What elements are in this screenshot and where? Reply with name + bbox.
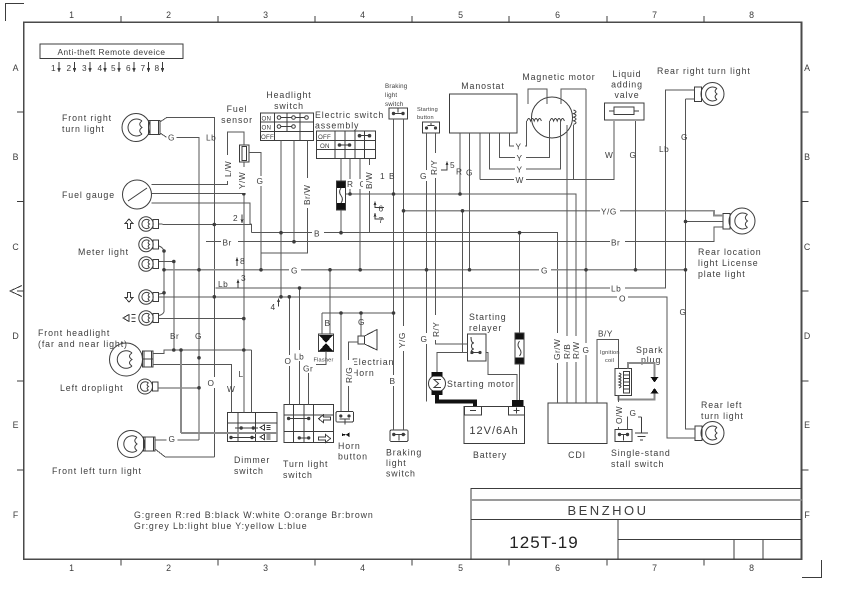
svg-text:switch: switch [385, 101, 404, 108]
svg-text:F: F [804, 510, 810, 520]
meter lamp 3 [139, 257, 159, 271]
wire manostat pin Y1 [490, 121, 561, 169]
svg-text:5: 5 [111, 63, 116, 73]
wire horn G [360, 313, 362, 336]
svg-text:button: button [338, 452, 368, 462]
svg-text:B/W: B/W [364, 172, 374, 189]
svg-text:C: C [804, 242, 811, 252]
wire R/B motor to CDI [566, 125, 568, 403]
svg-text:button: button [417, 115, 434, 121]
wire fuse battery top [519, 233, 521, 333]
svg-text:Horn: Horn [338, 441, 361, 451]
svg-text:1: 1 [51, 63, 56, 73]
CDI [548, 403, 607, 460]
wire Lb front right turn light top lead [160, 118, 214, 457]
bottom ticks [121, 560, 704, 566]
corner mark top-left [6, 4, 25, 22]
svg-text:8: 8 [749, 563, 755, 573]
svg-text:3: 3 [263, 10, 269, 20]
svg-text:Y: Y [516, 142, 522, 152]
svg-text:plate light: plate light [698, 269, 746, 279]
svg-text:O: O [285, 356, 292, 366]
single-stand stall switch [611, 430, 671, 470]
svg-text:1: 1 [69, 10, 75, 20]
node Lb bus right [610, 283, 625, 294]
svg-text:1: 1 [69, 563, 75, 573]
turn light switch [283, 405, 334, 481]
wire braking light switch front left pin [393, 119, 395, 430]
node Y1 [514, 141, 525, 152]
svg-text:G: G [169, 434, 176, 444]
electrian horn [352, 330, 394, 379]
svg-text:G: G [630, 408, 637, 418]
svg-text:R: R [456, 167, 463, 177]
wire electric switch pin B/W [369, 159, 371, 233]
electric switch assembly [315, 110, 384, 159]
wire fuel gauge Y/W [152, 162, 244, 413]
starting motor [429, 372, 515, 395]
svg-text:stall switch: stall switch [611, 459, 664, 469]
svg-text:Rear right turn light: Rear right turn light [657, 66, 751, 76]
svg-text:Front right: Front right [62, 113, 112, 123]
svg-text:G: G [541, 266, 548, 276]
wire dimmer L riser [251, 350, 253, 413]
wire CDI B/Y to ignition coil [597, 340, 619, 403]
svg-text:2: 2 [67, 63, 72, 73]
corner mark bottom-right [802, 560, 822, 578]
wire fuel gauge third lead [152, 203, 252, 225]
svg-text:light License: light License [698, 258, 759, 268]
pin arrow 8 [236, 256, 246, 266]
wire flasher top right [329, 270, 331, 334]
wire Lb bus [216, 90, 695, 288]
svg-text:switch: switch [234, 466, 264, 476]
svg-text:Horn: Horn [352, 368, 375, 378]
wire dimmer gray feed [181, 350, 277, 433]
pin arrow 7 [374, 213, 384, 226]
svg-text:R/G: R/G [344, 367, 354, 383]
node Y/G vertical [396, 326, 407, 351]
svg-text:8: 8 [155, 63, 160, 73]
svg-text:Gr/W: Gr/W [552, 339, 562, 360]
svg-text:W: W [227, 384, 235, 394]
svg-text:OFF: OFF [261, 134, 274, 141]
fuse electric switch [340, 159, 342, 182]
node G bus right [539, 264, 551, 276]
svg-text:ON: ON [262, 125, 272, 132]
wire headlight top lead / L line [153, 350, 252, 354]
svg-text:Lb: Lb [218, 279, 228, 289]
svg-text:Y/G: Y/G [397, 332, 407, 348]
node G elecsw [358, 179, 368, 189]
wire color legend [134, 510, 374, 531]
wire turn switch Lb riser [298, 288, 300, 405]
pin arrow 4 [271, 298, 280, 312]
dimmer switch [228, 413, 278, 477]
spark plug [636, 345, 663, 394]
svg-text:L: L [239, 369, 244, 379]
svg-text:6: 6 [555, 563, 561, 573]
svg-text:L/W: L/W [223, 161, 233, 177]
lamp: front right turn light [62, 113, 160, 142]
wire meter lamp4 upper lead [159, 293, 164, 294]
svg-text:turn light: turn light [701, 411, 744, 421]
wire meter lamp5 lead [159, 318, 244, 320]
wire headlight switch pin2 [293, 141, 295, 242]
svg-text:D: D [12, 331, 19, 341]
wire fuel sensor G [249, 153, 261, 270]
svg-text:Battery: Battery [473, 450, 507, 460]
svg-text:Br: Br [170, 331, 179, 341]
node Br bus left [221, 237, 238, 248]
svg-text:Braking: Braking [386, 448, 422, 458]
svg-text:Lb: Lb [659, 144, 669, 154]
svg-text:Electrian: Electrian [352, 357, 394, 367]
svg-text:D: D [804, 331, 811, 341]
svg-text:switch: switch [274, 101, 304, 111]
wire horn button B [340, 313, 342, 411]
svg-text:turn light: turn light [62, 124, 105, 134]
wire manostat pin G [469, 133, 471, 270]
svg-text:Gr:grey Lb:light blue Y:yell: Gr:grey Lb:light blue Y:yellow L:blue [134, 521, 307, 531]
svg-text:OFF: OFF [318, 134, 331, 141]
node G front right [167, 131, 177, 143]
fuel gauge [62, 180, 152, 209]
pin arrow 5 [441, 160, 455, 170]
svg-text:G: G [630, 150, 637, 160]
svg-text:G: G [421, 334, 428, 344]
right ticks [802, 112, 809, 470]
pin arrow 6 [374, 201, 384, 214]
svg-text:adding: adding [611, 80, 643, 90]
svg-text:Starting motor: Starting motor [447, 379, 515, 389]
svg-text:B/Y: B/Y [598, 329, 613, 339]
indicator arrow up [125, 219, 133, 229]
svg-text:6: 6 [379, 204, 384, 214]
wire manostat pin Y2 [500, 121, 550, 158]
liquid adding valve [605, 69, 645, 120]
svg-text:2: 2 [233, 213, 238, 223]
top numbers [69, 10, 755, 20]
wire headlight switch pin3 Br/W [261, 141, 308, 254]
svg-text:ON: ON [262, 116, 272, 123]
wire droplight lead [158, 387, 199, 389]
svg-text:O: O [619, 294, 626, 304]
headlight switch [261, 90, 314, 141]
svg-text:sensor: sensor [221, 115, 253, 125]
wire G bus [164, 269, 686, 271]
svg-text:R: R [347, 179, 354, 189]
svg-text:Spark: Spark [636, 345, 663, 355]
svg-text:G: G [291, 266, 298, 276]
svg-text:G: G [680, 307, 687, 317]
svg-text:3: 3 [82, 63, 87, 73]
wire Br bus [206, 227, 723, 242]
node Y/G bus [600, 205, 620, 217]
manostat [450, 81, 518, 133]
wire starting button G [426, 133, 428, 402]
svg-text:G:green R:red B:black W:whi: G:green R:red B:black W:white O:orange B… [134, 510, 374, 520]
starting relayer [468, 312, 507, 361]
svg-text:7: 7 [652, 10, 658, 20]
TITLE-BLOCK [471, 489, 802, 560]
node B horn button [388, 375, 398, 386]
svg-text:W: W [605, 150, 613, 160]
node Gr turnswitch [302, 362, 316, 374]
wire braking light switch front right pin [403, 119, 405, 211]
ground symbol [635, 417, 648, 440]
svg-text:R/W: R/W [571, 341, 581, 359]
node B bus label [312, 227, 324, 239]
svg-text:W: W [516, 175, 524, 185]
braking light switch (rear) [386, 430, 422, 479]
wire manostat pin Y3 [510, 121, 527, 146]
svg-text:Starting: Starting [417, 107, 438, 113]
right letters [804, 63, 811, 520]
flasher [312, 334, 342, 364]
svg-text:G: G [420, 171, 427, 181]
svg-text:CDI: CDI [568, 450, 586, 460]
svg-text:Fuel gauge: Fuel gauge [62, 190, 115, 200]
svg-text:Y: Y [517, 165, 523, 175]
node Y3 [515, 164, 526, 175]
thick cable motor to battery minus [437, 393, 475, 406]
lamp: rear right turn light [657, 66, 751, 106]
wire motor bridge 1 [528, 89, 547, 104]
pin arrow 3 [237, 273, 247, 288]
wire manostat pin W [480, 121, 614, 179]
braking light switch (front) [385, 83, 408, 119]
svg-text:12V/6Ah: 12V/6Ah [469, 425, 518, 437]
svg-text:G: G [583, 345, 590, 355]
node Y2 [515, 153, 526, 164]
svg-text:G: G [358, 317, 365, 327]
svg-text:6: 6 [126, 63, 131, 73]
wire G front right turn light bottom lead [160, 133, 199, 440]
wire front left turn light bottom lead [155, 449, 214, 457]
svg-text:A: A [13, 63, 20, 73]
svg-text:Lb: Lb [611, 284, 621, 294]
indicator arrow down [125, 293, 133, 303]
svg-text:2: 2 [166, 10, 172, 20]
node G sensor [255, 176, 265, 186]
node G stall [628, 407, 638, 418]
svg-text:Lb: Lb [294, 352, 304, 362]
wire meter lamp2 lead [159, 246, 164, 312]
battery [464, 400, 525, 460]
lamp: front left turn light [52, 431, 155, 477]
svg-text:3: 3 [241, 273, 246, 283]
wire electric switch pin R [349, 159, 351, 195]
lamp: left droplight [60, 379, 158, 394]
svg-text:4: 4 [98, 63, 103, 73]
svg-text:coil: coil [605, 358, 614, 364]
svg-text:Headlight: Headlight [266, 90, 311, 100]
svg-text:Dimmer: Dimmer [234, 455, 270, 465]
wire motor pickup W riser [573, 125, 575, 179]
node B/Y CDI [597, 328, 616, 339]
svg-text:Y: Y [517, 153, 523, 163]
svg-text:E: E [804, 420, 811, 430]
node R fuse [346, 179, 355, 189]
svg-text:Anti-theft Remote deveice: Anti-theft Remote deveice [58, 47, 166, 57]
ignition coil [600, 350, 632, 396]
svg-text:R/Y: R/Y [431, 322, 441, 337]
lamp: rear left turn light [695, 400, 744, 445]
node Br/W headlight switch [301, 178, 312, 208]
svg-text:Braking: Braking [385, 83, 408, 90]
wire stall switch G to ground [628, 417, 642, 430]
high beam indicator symbol [123, 315, 136, 322]
svg-text:G: G [168, 133, 175, 143]
meter light lamps column [78, 247, 129, 257]
lamp: rear location light / license plate light [698, 208, 762, 279]
wire relayer to battery plus [486, 353, 517, 400]
svg-text:Front headlight: Front headlight [38, 328, 110, 338]
wire flasher top left [321, 313, 323, 334]
node R/Y relayer [430, 315, 441, 340]
svg-text:2: 2 [166, 563, 172, 573]
svg-text:4: 4 [360, 563, 366, 573]
svg-text:C: C [12, 242, 19, 252]
svg-text:8: 8 [240, 256, 245, 266]
wire starting motor to relayer [437, 353, 468, 373]
svg-text:7: 7 [652, 563, 658, 573]
node G front left [167, 434, 178, 445]
svg-text:7: 7 [141, 63, 146, 73]
wire starting button R/Y [436, 133, 468, 344]
wire B link horn flasher brake [322, 312, 394, 314]
starting button [417, 107, 440, 133]
wire B bus [252, 233, 558, 403]
node W manostat [514, 175, 526, 186]
wire meter lamp5 upper lead [159, 312, 164, 316]
node O bus right [617, 293, 628, 304]
wire fuel gauge L/W [152, 132, 245, 185]
svg-text:Y/W: Y/W [237, 172, 247, 189]
svg-text:light: light [385, 92, 397, 99]
svg-text:Rear left: Rear left [701, 400, 742, 410]
svg-text:assembly: assembly [315, 121, 359, 131]
node Br bus right [610, 236, 625, 248]
svg-text:Magnetic motor: Magnetic motor [522, 72, 595, 82]
svg-text:B: B [389, 171, 395, 181]
wire O bus / meter lamp4 lead [159, 297, 695, 438]
svg-text:BENZHOU: BENZHOU [567, 503, 648, 518]
wire motor bridge 2 / G to CDI [561, 89, 586, 403]
svg-text:relayer: relayer [469, 323, 502, 333]
svg-text:Gr: Gr [303, 364, 313, 374]
anti-theft remote device box [40, 44, 183, 59]
svg-text:G: G [466, 168, 473, 178]
svg-text:valve: valve [614, 90, 639, 100]
svg-text:3: 3 [263, 563, 269, 573]
svg-text:Ignition: Ignition [600, 350, 620, 356]
node R/Y starting button [428, 153, 439, 178]
svg-text:G: G [195, 331, 202, 341]
node R/B CDI [561, 336, 572, 362]
svg-text:B: B [325, 318, 331, 328]
wire R net H3 [346, 194, 576, 403]
svg-text:R/Y: R/Y [429, 160, 439, 175]
svg-text:Rear location: Rear location [698, 247, 762, 257]
svg-text:Fuel: Fuel [227, 104, 248, 114]
node G starting motor area [419, 333, 429, 344]
node G starting button [419, 170, 429, 181]
svg-text:6: 6 [555, 10, 561, 20]
svg-text:Left droplight: Left droplight [60, 383, 123, 393]
svg-text:O/W: O/W [614, 406, 624, 424]
meter lamp 4 [139, 290, 159, 304]
svg-text:Y/G: Y/G [601, 207, 617, 217]
node O dimmer area [206, 377, 216, 388]
wire fuse battery bottom [519, 364, 521, 400]
svg-text:G: G [681, 132, 688, 142]
left letters [12, 63, 19, 520]
wire relayer Y/G riser [463, 211, 468, 353]
svg-text:light: light [386, 458, 407, 468]
wire Y/G bus [404, 211, 724, 216]
node G bus left [289, 264, 301, 276]
node Lb bus left [217, 279, 234, 290]
svg-text:Turn light: Turn light [283, 459, 328, 469]
wire electric switch pin G [359, 159, 361, 270]
wire liquid valve G [635, 121, 637, 270]
wire headlight bottom lead W [153, 365, 231, 413]
wire spark plug loop [619, 363, 655, 400]
svg-text:B: B [390, 376, 396, 386]
svg-text:Single-stand: Single-stand [611, 448, 671, 458]
wire flasher Gr to turn switch [309, 352, 326, 405]
wire Y/G vertical to rear brake switch [403, 211, 405, 430]
wire G rear vertical [686, 99, 696, 429]
wire meter lamp3 lead [159, 262, 174, 351]
svg-text:Br: Br [611, 238, 620, 248]
svg-text:4: 4 [360, 10, 366, 20]
svg-text:5: 5 [450, 160, 455, 170]
wire horn R/G [349, 342, 359, 411]
wire headlight switch pin1 [280, 141, 282, 297]
node R/W CDI [570, 336, 581, 362]
svg-text:5: 5 [458, 563, 464, 573]
svg-text:A: A [804, 63, 811, 73]
node B/W elecsw [363, 165, 374, 191]
svg-text:Meter light: Meter light [78, 247, 129, 257]
left center arrow mark [10, 286, 24, 297]
svg-text:125T-19: 125T-19 [509, 533, 578, 552]
svg-text:B: B [314, 229, 320, 239]
wire rear location light mid lead [686, 221, 724, 223]
pin arrow 2 [233, 213, 243, 224]
svg-text:Front left turn light: Front left turn light [52, 466, 142, 476]
svg-text:G: G [257, 176, 264, 186]
fuel sensor [221, 104, 253, 162]
svg-text:4: 4 [271, 302, 276, 312]
meter lamp 1 [139, 217, 159, 231]
junction dots [162, 192, 687, 390]
horn button [336, 412, 368, 462]
node Y/W [236, 167, 247, 193]
svg-text:B: B [13, 152, 20, 162]
wire meter lamp1 lead / H5 [159, 224, 252, 233]
node O turnswitch [283, 355, 293, 366]
node O/W stall [613, 402, 624, 427]
svg-text:F: F [13, 510, 19, 520]
svg-text:B: B [804, 152, 811, 162]
fuse (battery) [515, 333, 524, 364]
node L/W [222, 155, 233, 181]
svg-text:Br: Br [223, 238, 232, 248]
